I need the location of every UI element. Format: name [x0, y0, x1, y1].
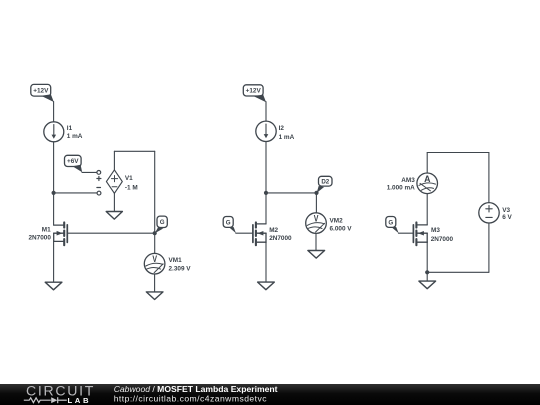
wire G flag to M3 gate	[399, 232, 414, 234]
svg-text:+6V: +6V	[67, 158, 79, 165]
wire M1 source to ground	[53, 241, 55, 281]
svg-text:G: G	[226, 219, 231, 226]
net flag G (node G)	[155, 216, 168, 233]
plus mark control input	[97, 177, 101, 181]
wire I2 to junction	[265, 142, 267, 193]
svg-text:http://circuitlab.com/c4zanwms: http://circuitlab.com/c4zanwmsdetvc	[114, 393, 268, 403]
transistor M1 2N7000 (mirrored)	[29, 222, 68, 245]
wire D2 node to VM2	[315, 193, 317, 213]
wire top horizontal to node G	[114, 150, 154, 152]
svg-text:-1 M: -1 M	[125, 184, 138, 191]
wire M3 source down	[426, 242, 428, 272]
wire V3 bottom	[488, 223, 490, 272]
net flag D2	[317, 176, 332, 193]
wire VM1 to ground	[154, 274, 156, 292]
voltmeter VM1	[144, 253, 191, 274]
wire flag to I2	[265, 102, 267, 121]
wire AM3 to M3 drain	[426, 194, 428, 225]
junction drain node	[52, 191, 56, 195]
svg-text:M2: M2	[269, 227, 278, 234]
ground VM2	[308, 251, 325, 259]
wire drain junction down to M1	[53, 193, 55, 225]
svg-text:V3: V3	[502, 207, 510, 214]
svg-text:6 V: 6 V	[502, 214, 512, 221]
junction M2 drain node	[264, 191, 268, 195]
wire node G to M1 gate	[68, 232, 155, 234]
power flag +6V	[65, 155, 83, 172]
wire node G down to VM1	[154, 233, 156, 253]
voltage source V3	[479, 203, 513, 223]
svg-text:2N7000: 2N7000	[269, 235, 292, 242]
svg-text:6.000 V: 6.000 V	[330, 226, 353, 233]
footer bar	[0, 384, 540, 405]
svg-text:1 mA: 1 mA	[279, 134, 295, 141]
svg-text:2N7000: 2N7000	[431, 236, 454, 243]
wire M2 drain up	[265, 193, 267, 224]
wire junction to D2 node	[266, 192, 317, 194]
transistor M2 2N7000	[253, 222, 292, 245]
wire flag to I1	[53, 102, 55, 122]
svg-text:2.309 V: 2.309 V	[169, 266, 192, 273]
svg-text:VM1: VM1	[169, 257, 183, 264]
svg-text:A: A	[424, 174, 431, 184]
svg-text:I2: I2	[279, 125, 285, 132]
net flag G (M3 gate)	[386, 217, 399, 234]
junction D2 node	[314, 191, 318, 195]
svg-text:VM2: VM2	[330, 217, 344, 224]
svg-text:M3: M3	[431, 227, 440, 234]
svg-text:V1: V1	[125, 175, 133, 182]
svg-text:Cabwood / MOSFET Lambda Experi: Cabwood / MOSFET Lambda Experiment	[114, 384, 278, 394]
current source I1	[44, 122, 83, 142]
wire top to AM3	[426, 153, 428, 173]
wire +6V flag to plus input	[82, 171, 97, 173]
svg-text:AM3: AM3	[401, 177, 415, 184]
wire G flag to M2 gate	[236, 232, 253, 234]
terminal V1 plus input	[97, 171, 101, 175]
logo wire-resistor-diode	[24, 397, 67, 403]
svg-text:+12V: +12V	[33, 88, 49, 95]
svg-text:G: G	[160, 219, 165, 226]
wire V1 to ground	[113, 193, 115, 211]
wire junction to ground	[426, 272, 428, 281]
ground M3	[419, 281, 436, 289]
wire VM2 to ground	[315, 233, 317, 250]
svg-text:1.000 mA: 1.000 mA	[387, 185, 415, 192]
power flag +12V (left)	[31, 84, 54, 102]
ground M1	[45, 282, 62, 290]
junction bottom node	[425, 270, 429, 274]
svg-text:+12V: +12V	[246, 88, 262, 95]
terminal V1 minus input	[97, 191, 101, 195]
voltmeter VM2	[306, 213, 353, 234]
svg-text:D2: D2	[321, 178, 329, 185]
wire bottom horizontal	[427, 271, 489, 273]
dependent source V1	[106, 170, 137, 193]
ground M2	[258, 282, 275, 290]
junction node G	[153, 231, 157, 235]
wire I1 to drain node	[53, 142, 55, 193]
wire junction to V1 minus input	[54, 192, 97, 194]
ammeter AM3	[387, 173, 438, 194]
net flag G (M2 gate)	[223, 217, 236, 234]
ground V1	[106, 212, 122, 220]
svg-text:G: G	[388, 219, 393, 226]
wire V3 top	[488, 153, 490, 203]
svg-text:LAB: LAB	[68, 396, 92, 405]
svg-text:M1: M1	[42, 226, 51, 233]
minus mark control input	[97, 187, 101, 189]
svg-text:V: V	[314, 213, 319, 223]
svg-text:I1: I1	[67, 125, 73, 132]
wire V1 top up	[113, 151, 115, 170]
transistor M3 2N7000	[413, 222, 453, 245]
wire top horizontal (right circuit)	[427, 152, 489, 154]
svg-text:V: V	[152, 254, 157, 264]
svg-text:1 mA: 1 mA	[67, 133, 83, 140]
wire M2 source to ground	[265, 242, 267, 281]
svg-text:2N7000: 2N7000	[29, 234, 52, 241]
wire down to node G junction	[154, 151, 156, 233]
current source I2	[256, 121, 295, 141]
power flag +12V (middle)	[243, 85, 266, 102]
ground VM1	[146, 292, 163, 300]
